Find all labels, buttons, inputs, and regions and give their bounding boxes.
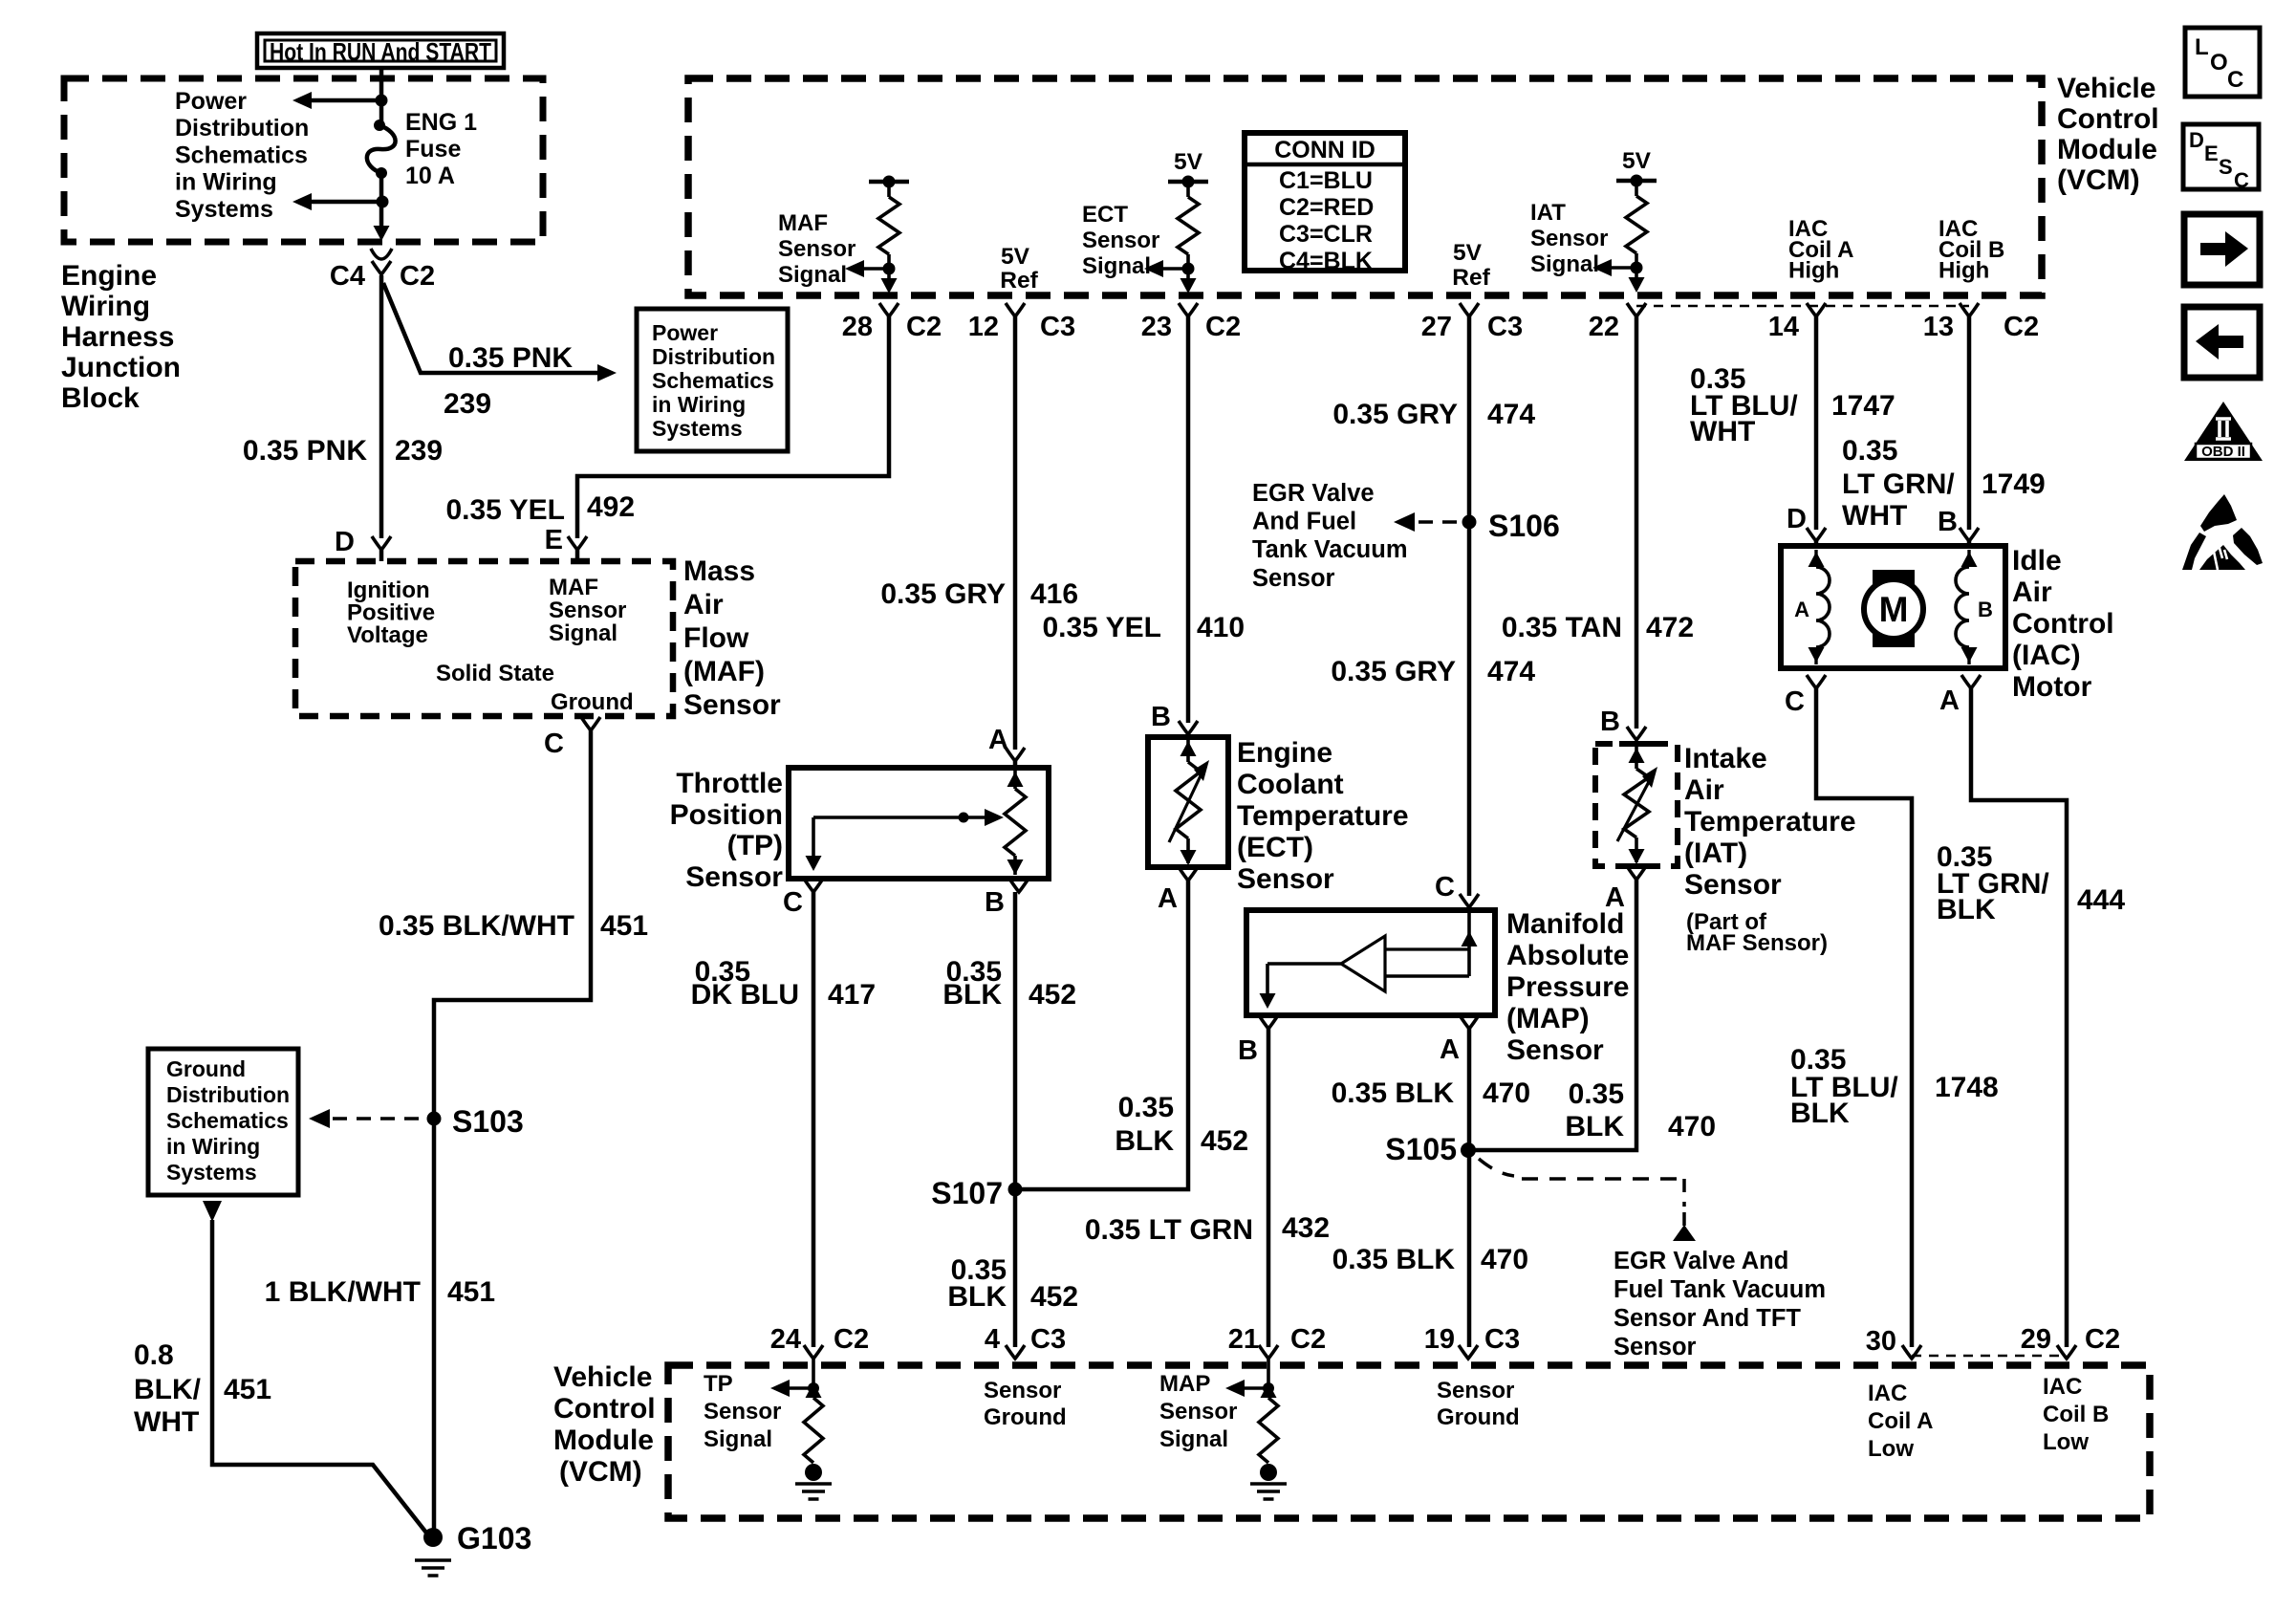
svg-text:Air: Air bbox=[683, 589, 724, 620]
svg-text:Signal: Signal bbox=[1159, 1426, 1228, 1452]
svg-text:(MAP): (MAP) bbox=[1506, 1003, 1590, 1034]
connector: IAC pin D bbox=[1807, 528, 1826, 541]
wire: 0.35 DK BLU 417 (TP C to VCM pin 24) bbox=[812, 892, 816, 1347]
svg-text:Intake: Intake bbox=[1684, 743, 1767, 774]
svg-text:30: 30 bbox=[1866, 1326, 1896, 1357]
svg-text:High: High bbox=[1939, 258, 1989, 284]
svg-text:Fuse: Fuse bbox=[405, 136, 461, 163]
svg-text:ENG 1: ENG 1 bbox=[405, 109, 477, 136]
svg-text:Sensor: Sensor bbox=[1506, 1034, 1604, 1066]
svg-text:0.35 YEL: 0.35 YEL bbox=[1042, 612, 1161, 643]
svg-text:Sensor: Sensor bbox=[683, 689, 781, 721]
connector face line pins 30-29 bbox=[1912, 1355, 2067, 1358]
svg-text:S107: S107 bbox=[931, 1176, 1003, 1210]
wire arrow to power distribution (lower) bbox=[306, 200, 382, 205]
svg-text:BLK: BLK bbox=[942, 979, 1002, 1011]
connector: VCM pin 13 C2 bbox=[1960, 303, 1979, 316]
svg-text:27: 27 bbox=[1421, 312, 1452, 342]
svg-text:M: M bbox=[1879, 590, 1909, 629]
svg-text:Vehicle: Vehicle bbox=[553, 1361, 652, 1393]
IAT internal: thermistor bbox=[1635, 744, 1638, 769]
dashed link to ground distribution reference bbox=[333, 1117, 426, 1120]
svg-text:WHT: WHT bbox=[1690, 416, 1755, 447]
wire: 0.8 BLK/WHT 451 to G103 bbox=[212, 1220, 433, 1541]
svg-text:4: 4 bbox=[985, 1324, 1000, 1355]
svg-text:Harness: Harness bbox=[61, 321, 174, 353]
svg-text:WHT: WHT bbox=[1842, 500, 1907, 532]
svg-text:B: B bbox=[1151, 702, 1171, 732]
svg-text:0.35 GRY: 0.35 GRY bbox=[1331, 656, 1456, 687]
svg-text:IAC: IAC bbox=[2043, 1374, 2082, 1400]
svg-text:C3=CLR: C3=CLR bbox=[1279, 221, 1373, 248]
svg-text:Sensor: Sensor bbox=[1437, 1378, 1514, 1403]
svg-text:B: B bbox=[985, 887, 1005, 918]
svg-text:0.35 GRY: 0.35 GRY bbox=[880, 578, 1006, 610]
svg-text:Air: Air bbox=[2012, 577, 2052, 608]
svg-text:L: L bbox=[2195, 34, 2209, 60]
svg-text:C2: C2 bbox=[2004, 312, 2039, 342]
svg-text:451: 451 bbox=[600, 910, 648, 942]
svg-text:Idle: Idle bbox=[2012, 545, 2062, 577]
svg-text:C4=BLK: C4=BLK bbox=[1279, 248, 1373, 274]
icon: back arrow box bbox=[2184, 307, 2260, 378]
svg-text:470: 470 bbox=[1668, 1111, 1716, 1142]
svg-text:0.35 PNK: 0.35 PNK bbox=[448, 342, 573, 374]
splice S105 bbox=[1461, 1142, 1476, 1158]
svg-text:Engine: Engine bbox=[61, 260, 157, 292]
svg-text:0.35 LT GRN: 0.35 LT GRN bbox=[1085, 1214, 1253, 1246]
wire: 0.35 TAN 472 IAT signal (pin 22 to IAT pin B) bbox=[1635, 316, 1639, 729]
svg-text:24: 24 bbox=[770, 1324, 801, 1355]
svg-text:D: D bbox=[335, 527, 355, 557]
svg-text:CONN ID: CONN ID bbox=[1274, 137, 1375, 163]
svg-text:1748: 1748 bbox=[1935, 1072, 1999, 1103]
svg-text:Air: Air bbox=[1684, 774, 1724, 806]
svg-text:S105: S105 bbox=[1385, 1132, 1457, 1166]
svg-text:Sensor: Sensor bbox=[778, 236, 856, 262]
svg-text:Sensor And TFT: Sensor And TFT bbox=[1614, 1305, 1801, 1332]
svg-text:EGR Valve And: EGR Valve And bbox=[1614, 1248, 1788, 1274]
svg-text:Sensor: Sensor bbox=[685, 861, 783, 893]
svg-text:Control: Control bbox=[553, 1393, 656, 1425]
wire: 0.35 BLK/WHT 451 from MAF pin C bbox=[434, 730, 591, 1530]
svg-text:Absolute: Absolute bbox=[1506, 940, 1629, 971]
svg-text:0.35 TAN: 0.35 TAN bbox=[1502, 612, 1622, 643]
svg-text:472: 472 bbox=[1646, 612, 1694, 643]
svg-text:Module: Module bbox=[553, 1425, 654, 1456]
svg-text:High: High bbox=[1788, 258, 1839, 284]
svg-text:239: 239 bbox=[444, 388, 491, 420]
connector: VCM pin 24 C2 bbox=[804, 1345, 823, 1359]
wire: 0.35 LT BLU/WHT 1747 (pin 14 to IAC D) bbox=[1814, 316, 1819, 530]
svg-text:A: A bbox=[1794, 598, 1809, 621]
svg-text:Sensor: Sensor bbox=[984, 1378, 1061, 1403]
svg-text:Power: Power bbox=[652, 320, 718, 345]
svg-text:Distribution: Distribution bbox=[652, 344, 775, 369]
svg-text:Module: Module bbox=[2057, 134, 2157, 165]
svg-text:13: 13 bbox=[1923, 312, 1954, 342]
svg-text:0.35 PNK: 0.35 PNK bbox=[243, 435, 367, 467]
connector: VCM pin 22 bbox=[1627, 303, 1646, 316]
svg-text:474: 474 bbox=[1487, 656, 1535, 687]
connector: IAC pin A (bottom) bbox=[1961, 675, 1981, 688]
svg-text:Sensor: Sensor bbox=[1684, 869, 1782, 901]
svg-text:MAP: MAP bbox=[1159, 1371, 1210, 1397]
svg-text:IAT: IAT bbox=[1530, 200, 1566, 226]
svg-text:492: 492 bbox=[587, 491, 635, 523]
svg-text:Flow: Flow bbox=[683, 622, 749, 654]
svg-text:BLK: BLK bbox=[1115, 1125, 1174, 1157]
connector: TP pin A bbox=[1006, 748, 1025, 761]
svg-text:28: 28 bbox=[842, 312, 873, 342]
svg-text:G103: G103 bbox=[457, 1521, 531, 1556]
connector: IAC pin C bbox=[1807, 675, 1826, 688]
svg-text:410: 410 bbox=[1197, 612, 1245, 643]
svg-text:29: 29 bbox=[2021, 1324, 2051, 1355]
svg-text:Voltage: Voltage bbox=[347, 622, 428, 648]
svg-text:417: 417 bbox=[828, 979, 876, 1011]
svg-text:5V: 5V bbox=[1174, 149, 1203, 175]
svg-text:21: 21 bbox=[1228, 1324, 1259, 1355]
reference box: Power Distribution Schematics in Wiring Systems bbox=[637, 309, 788, 451]
svg-text:C3: C3 bbox=[1030, 1324, 1066, 1355]
svg-text:C2=RED: C2=RED bbox=[1279, 194, 1374, 221]
connector: VCM pin 19 C3 bbox=[1459, 1345, 1478, 1359]
svg-text:(TP): (TP) bbox=[727, 830, 783, 861]
ground G103 bbox=[423, 1528, 443, 1547]
svg-text:Signal: Signal bbox=[1082, 253, 1151, 279]
ECT internal: thermistor bbox=[1186, 737, 1190, 762]
svg-text:B: B bbox=[1978, 598, 1993, 621]
svg-text:MAF: MAF bbox=[549, 575, 598, 600]
svg-text:WHT: WHT bbox=[134, 1406, 199, 1438]
connector: ECT pin B bbox=[1179, 721, 1198, 734]
icon: LOC box bbox=[2185, 28, 2260, 97]
svg-text:Position: Position bbox=[670, 799, 783, 831]
svg-text:A: A bbox=[1440, 1034, 1460, 1065]
svg-text:Sensor: Sensor bbox=[1614, 1334, 1697, 1360]
wire: 0.35 YEL 492 MAF sensor signal (VCM pin 28 to MAF pin E) bbox=[577, 316, 889, 538]
svg-text:C: C bbox=[1435, 872, 1455, 903]
svg-text:A: A bbox=[1158, 883, 1178, 914]
svg-text:C: C bbox=[2234, 168, 2249, 192]
arrow: MAF Sensor Signal bbox=[858, 267, 889, 271]
wire: 0.35 LT BLU/BLK 1748 (IAC C to VCM pin 30) bbox=[1816, 688, 1912, 1347]
arrow: ECT Sensor Signal bbox=[1158, 267, 1188, 271]
svg-text:Signal: Signal bbox=[704, 1426, 772, 1452]
svg-text:Schematics: Schematics bbox=[652, 368, 774, 393]
svg-text:452: 452 bbox=[1201, 1125, 1248, 1157]
svg-text:5V: 5V bbox=[1622, 148, 1652, 174]
svg-text:Sensor: Sensor bbox=[549, 598, 626, 623]
svg-text:(IAT): (IAT) bbox=[1684, 838, 1747, 869]
svg-text:Ground: Ground bbox=[1437, 1404, 1520, 1430]
svg-text:Power: Power bbox=[175, 88, 247, 115]
svg-text:C: C bbox=[2227, 67, 2243, 93]
VCM internal: MAF signal pull-up resistor (pin 28) bbox=[869, 180, 909, 185]
svg-text:A: A bbox=[988, 725, 1008, 755]
wire below fuse bbox=[379, 173, 384, 202]
MAP internal: buffer amplifier bbox=[1467, 910, 1471, 976]
svg-text:Sensor: Sensor bbox=[1159, 1399, 1237, 1425]
svg-text:EGR Valve: EGR Valve bbox=[1252, 480, 1375, 507]
svg-text:C: C bbox=[1785, 686, 1805, 717]
svg-text:23: 23 bbox=[1141, 312, 1172, 342]
svg-text:451: 451 bbox=[447, 1276, 495, 1308]
svg-text:Junction: Junction bbox=[61, 352, 181, 383]
svg-text:(VCM): (VCM) bbox=[2057, 164, 2140, 196]
splice S103 bbox=[427, 1112, 442, 1126]
TP internal: wiper arm bbox=[813, 816, 988, 819]
svg-text:B: B bbox=[1238, 1035, 1258, 1066]
wire: 0.35 PNK 239 branch to power distribution schematics bbox=[383, 283, 602, 373]
svg-text:Mass: Mass bbox=[683, 555, 755, 587]
svg-text:0.35 GRY: 0.35 GRY bbox=[1332, 399, 1458, 430]
svg-text:A: A bbox=[1605, 882, 1625, 913]
svg-text:Block: Block bbox=[61, 382, 140, 414]
reference box: Ground Distribution Schematics in Wiring Systems bbox=[148, 1049, 298, 1195]
dashed link: S106 to EGR valve and fuel tank vacuum sensor bbox=[1419, 520, 1460, 524]
node: IAT signal tap bbox=[1631, 262, 1643, 274]
svg-text:0.35 BLK: 0.35 BLK bbox=[1332, 1077, 1455, 1109]
svg-text:10 A: 10 A bbox=[405, 163, 455, 189]
svg-text:Low: Low bbox=[1868, 1436, 1914, 1462]
svg-text:MAF Sensor): MAF Sensor) bbox=[1686, 930, 1828, 956]
svg-text:Signal: Signal bbox=[549, 620, 617, 646]
IAC internal: coil A bbox=[1814, 550, 1817, 567]
svg-text:IAC: IAC bbox=[1868, 1381, 1907, 1406]
svg-text:Wiring: Wiring bbox=[61, 291, 150, 322]
svg-text:(MAF): (MAF) bbox=[683, 656, 765, 687]
svg-text:452: 452 bbox=[1030, 1281, 1078, 1313]
svg-text:C2: C2 bbox=[1205, 312, 1241, 342]
svg-text:Motor: Motor bbox=[2012, 671, 2092, 703]
svg-text:Signal: Signal bbox=[778, 262, 847, 288]
svg-text:BLK: BLK bbox=[1937, 894, 1996, 925]
arrow from ground distribution box bbox=[203, 1201, 222, 1222]
svg-text:D: D bbox=[1787, 504, 1807, 534]
wire: battery feed from Hot box bbox=[379, 68, 384, 100]
svg-text:C2: C2 bbox=[400, 261, 435, 292]
Vehicle Control Module (VCM) dashed box bottom bbox=[668, 1365, 2150, 1518]
splice S106 bbox=[1462, 515, 1477, 530]
svg-text:C2: C2 bbox=[906, 312, 942, 342]
Engine Coolant Temperature (ECT) sensor box bbox=[1148, 737, 1228, 867]
svg-text:1749: 1749 bbox=[1982, 468, 2046, 500]
svg-text:Ground: Ground bbox=[984, 1404, 1067, 1430]
svg-text:Sensor: Sensor bbox=[1252, 565, 1335, 592]
fuse ENG 1 10A bbox=[379, 100, 384, 125]
svg-text:Solid State: Solid State bbox=[436, 661, 554, 686]
connector: MAF pin C (ground) bbox=[581, 717, 600, 730]
svg-text:5V: 5V bbox=[1453, 240, 1483, 266]
svg-text:Temperature: Temperature bbox=[1237, 800, 1409, 832]
svg-text:1 BLK/WHT: 1 BLK/WHT bbox=[265, 1276, 421, 1308]
svg-text:Control: Control bbox=[2012, 608, 2114, 640]
connector: ECT pin A bbox=[1179, 867, 1198, 881]
VCM internal: TP signal input resistor to ground bbox=[812, 1359, 815, 1388]
power feed label box: Hot In RUN And START bbox=[257, 33, 504, 68]
svg-text:C4: C4 bbox=[330, 261, 365, 292]
svg-text:DK BLU: DK BLU bbox=[691, 979, 799, 1011]
svg-text:Distribution: Distribution bbox=[166, 1082, 290, 1107]
svg-text:432: 432 bbox=[1282, 1212, 1330, 1244]
svg-text:452: 452 bbox=[1029, 979, 1076, 1011]
svg-text:BLK: BLK bbox=[1565, 1111, 1624, 1142]
connector: VCM pin 23 C2 bbox=[1179, 303, 1198, 316]
wire: 0.35 BLK 452 (TP B to S107) bbox=[1013, 892, 1018, 1347]
svg-text:12: 12 bbox=[968, 312, 999, 342]
svg-text:S103: S103 bbox=[452, 1104, 524, 1139]
svg-text:C: C bbox=[783, 887, 803, 918]
svg-text:0.35: 0.35 bbox=[1569, 1078, 1624, 1110]
MAF sensor dashed box bbox=[295, 561, 673, 716]
svg-text:0.35 BLK/WHT: 0.35 BLK/WHT bbox=[379, 910, 574, 942]
svg-text:A: A bbox=[1939, 685, 1960, 716]
connector face line pins 22-13 bbox=[1636, 305, 1969, 308]
svg-text:O: O bbox=[2210, 50, 2228, 76]
svg-text:416: 416 bbox=[1030, 578, 1078, 610]
ESD static sensitive symbol bbox=[2200, 494, 2237, 532]
svg-text:0.35: 0.35 bbox=[1118, 1092, 1174, 1123]
svg-text:Distribution: Distribution bbox=[175, 115, 309, 141]
svg-text:5V: 5V bbox=[1001, 244, 1030, 270]
svg-text:470: 470 bbox=[1483, 1077, 1530, 1109]
connector: VCM pin 28 C2 bbox=[879, 303, 899, 316]
connector: TP pin C bbox=[804, 879, 823, 892]
junction block dashed box (Engine Wiring Harness Junction Block) bbox=[64, 78, 543, 242]
svg-text:19: 19 bbox=[1424, 1324, 1455, 1355]
svg-text:Systems: Systems bbox=[166, 1160, 257, 1185]
connector: MAP pin A bbox=[1460, 1015, 1479, 1029]
Idle Air Control (IAC) motor box bbox=[1781, 546, 2005, 668]
connector: IAT pin A bbox=[1627, 866, 1646, 880]
svg-text:Ref: Ref bbox=[1452, 265, 1490, 291]
svg-text:B: B bbox=[1600, 707, 1620, 737]
svg-text:470: 470 bbox=[1481, 1244, 1528, 1275]
node: ECT signal tap bbox=[1182, 263, 1195, 275]
svg-text:ECT: ECT bbox=[1082, 202, 1128, 228]
svg-text:Ground: Ground bbox=[551, 689, 634, 715]
svg-text:(ECT): (ECT) bbox=[1237, 832, 1313, 863]
wire: fuse output to connector C4/C2 bbox=[379, 202, 384, 231]
svg-text:1747: 1747 bbox=[1831, 390, 1895, 422]
icon: forward arrow box bbox=[2184, 214, 2260, 285]
connector: VCM pin 27 C3 bbox=[1460, 303, 1479, 316]
svg-text:(VCM): (VCM) bbox=[559, 1456, 642, 1488]
connector: IAT pin B bbox=[1627, 727, 1646, 740]
icon: OBD II triangle bbox=[2184, 402, 2263, 461]
connector: VCM pin 12 C3 bbox=[1006, 303, 1025, 316]
connector: IAC pin B (top) bbox=[1960, 528, 1979, 541]
svg-text:0.35: 0.35 bbox=[1842, 435, 1897, 467]
svg-text:C1=BLU: C1=BLU bbox=[1279, 167, 1373, 194]
wire: 0.35 LT GRN/BLK 444 (IAC A to VCM pin 29) bbox=[1971, 688, 2067, 1347]
svg-text:0.35 BLK: 0.35 BLK bbox=[1332, 1244, 1456, 1275]
svg-text:E: E bbox=[545, 525, 563, 555]
wire: 0.35 BLK 470 (MAP A to S105) bbox=[1467, 1029, 1472, 1347]
connector: VCM pin 14 bbox=[1807, 303, 1826, 316]
svg-text:Ground: Ground bbox=[166, 1056, 246, 1081]
svg-text:C3: C3 bbox=[1040, 312, 1075, 342]
dashed link: S105 to EGR/fuel tank/TFT sensors bbox=[1479, 1159, 1514, 1176]
connector: MAF pin D bbox=[372, 536, 391, 550]
svg-text:Pressure: Pressure bbox=[1506, 971, 1629, 1003]
svg-text:Hot In RUN And START: Hot In RUN And START bbox=[270, 37, 491, 66]
svg-text:TP: TP bbox=[704, 1371, 733, 1397]
svg-text:S: S bbox=[2219, 155, 2233, 179]
node: feed junction upper bbox=[376, 95, 388, 107]
IAC internal: motor M bbox=[1873, 570, 1915, 647]
connector: MAF pin E bbox=[568, 536, 587, 550]
svg-text:in Wiring: in Wiring bbox=[166, 1134, 260, 1159]
node: MAF signal tap bbox=[883, 263, 896, 275]
svg-text:Sensor: Sensor bbox=[704, 1399, 781, 1425]
TP internal: potentiometer resistor bbox=[1013, 768, 1017, 789]
svg-text:444: 444 bbox=[2077, 884, 2125, 916]
svg-text:Signal: Signal bbox=[1530, 251, 1599, 277]
svg-text:BLK/: BLK/ bbox=[134, 1374, 202, 1405]
svg-text:C3: C3 bbox=[1487, 312, 1523, 342]
connector: TP pin B bbox=[1009, 879, 1029, 892]
svg-text:in Wiring: in Wiring bbox=[175, 169, 277, 196]
svg-text:And Fuel: And Fuel bbox=[1252, 509, 1356, 535]
svg-text:Temperature: Temperature bbox=[1684, 806, 1856, 838]
svg-text:Throttle: Throttle bbox=[676, 768, 783, 799]
svg-text:451: 451 bbox=[224, 1374, 271, 1405]
svg-text:B: B bbox=[1938, 507, 1958, 537]
Manifold Absolute Pressure (MAP) sensor box bbox=[1246, 910, 1495, 1015]
svg-text:Ref: Ref bbox=[1000, 268, 1038, 294]
wire: 0.35 GRY 474 5V ref (pin 27 to MAP pin C) bbox=[1467, 316, 1472, 896]
svg-text:Systems: Systems bbox=[652, 416, 743, 441]
svg-text:Coil B: Coil B bbox=[2043, 1402, 2109, 1427]
Intake Air Temperature (IAT) sensor dashed box bbox=[1595, 744, 1678, 866]
connector: MAP pin B bbox=[1259, 1015, 1278, 1029]
Throttle Position (TP) sensor box bbox=[789, 768, 1049, 879]
svg-text:Coil A: Coil A bbox=[1868, 1408, 1933, 1434]
svg-text:(IAC): (IAC) bbox=[2012, 640, 2081, 671]
wire: 0.35 PNK 239 to MAF pin D bbox=[379, 275, 384, 538]
svg-text:Fuel Tank Vacuum: Fuel Tank Vacuum bbox=[1614, 1276, 1826, 1303]
connector C4/C2 (junction block to harness) bbox=[371, 249, 392, 259]
svg-text:Low: Low bbox=[2043, 1429, 2089, 1455]
svg-text:C2: C2 bbox=[2085, 1324, 2120, 1355]
connector: VCM pin 4 C3 bbox=[1006, 1345, 1025, 1359]
svg-text:C3: C3 bbox=[1484, 1324, 1520, 1355]
svg-text:Systems: Systems bbox=[175, 196, 273, 223]
svg-text:C2: C2 bbox=[1290, 1324, 1326, 1355]
svg-text:Sensor: Sensor bbox=[1530, 226, 1608, 251]
arrow: IAT Sensor Signal bbox=[1606, 266, 1636, 270]
wire: 0.35 GRY 416 5V ref (pin 12 to TP pin A) bbox=[1013, 316, 1018, 750]
VCM internal: MAP signal input resistor to ground bbox=[1267, 1359, 1270, 1388]
svg-text:Schematics: Schematics bbox=[166, 1108, 289, 1133]
svg-text:S106: S106 bbox=[1488, 509, 1560, 543]
Vehicle Control Module (VCM) dashed box top bbox=[688, 78, 2042, 295]
svg-text:Vehicle: Vehicle bbox=[2057, 73, 2155, 104]
svg-text:in Wiring: in Wiring bbox=[652, 392, 746, 417]
svg-text:BLK: BLK bbox=[947, 1281, 1007, 1313]
CONN ID table bbox=[1245, 133, 1405, 271]
svg-text:239: 239 bbox=[395, 435, 443, 467]
svg-text:C: C bbox=[544, 729, 564, 759]
svg-text:0.8: 0.8 bbox=[134, 1339, 174, 1371]
svg-text:Control: Control bbox=[2057, 103, 2159, 135]
IAC internal: coil B bbox=[1967, 550, 1970, 567]
svg-text:LT GRN/: LT GRN/ bbox=[1842, 468, 1955, 500]
svg-text:14: 14 bbox=[1768, 312, 1799, 342]
